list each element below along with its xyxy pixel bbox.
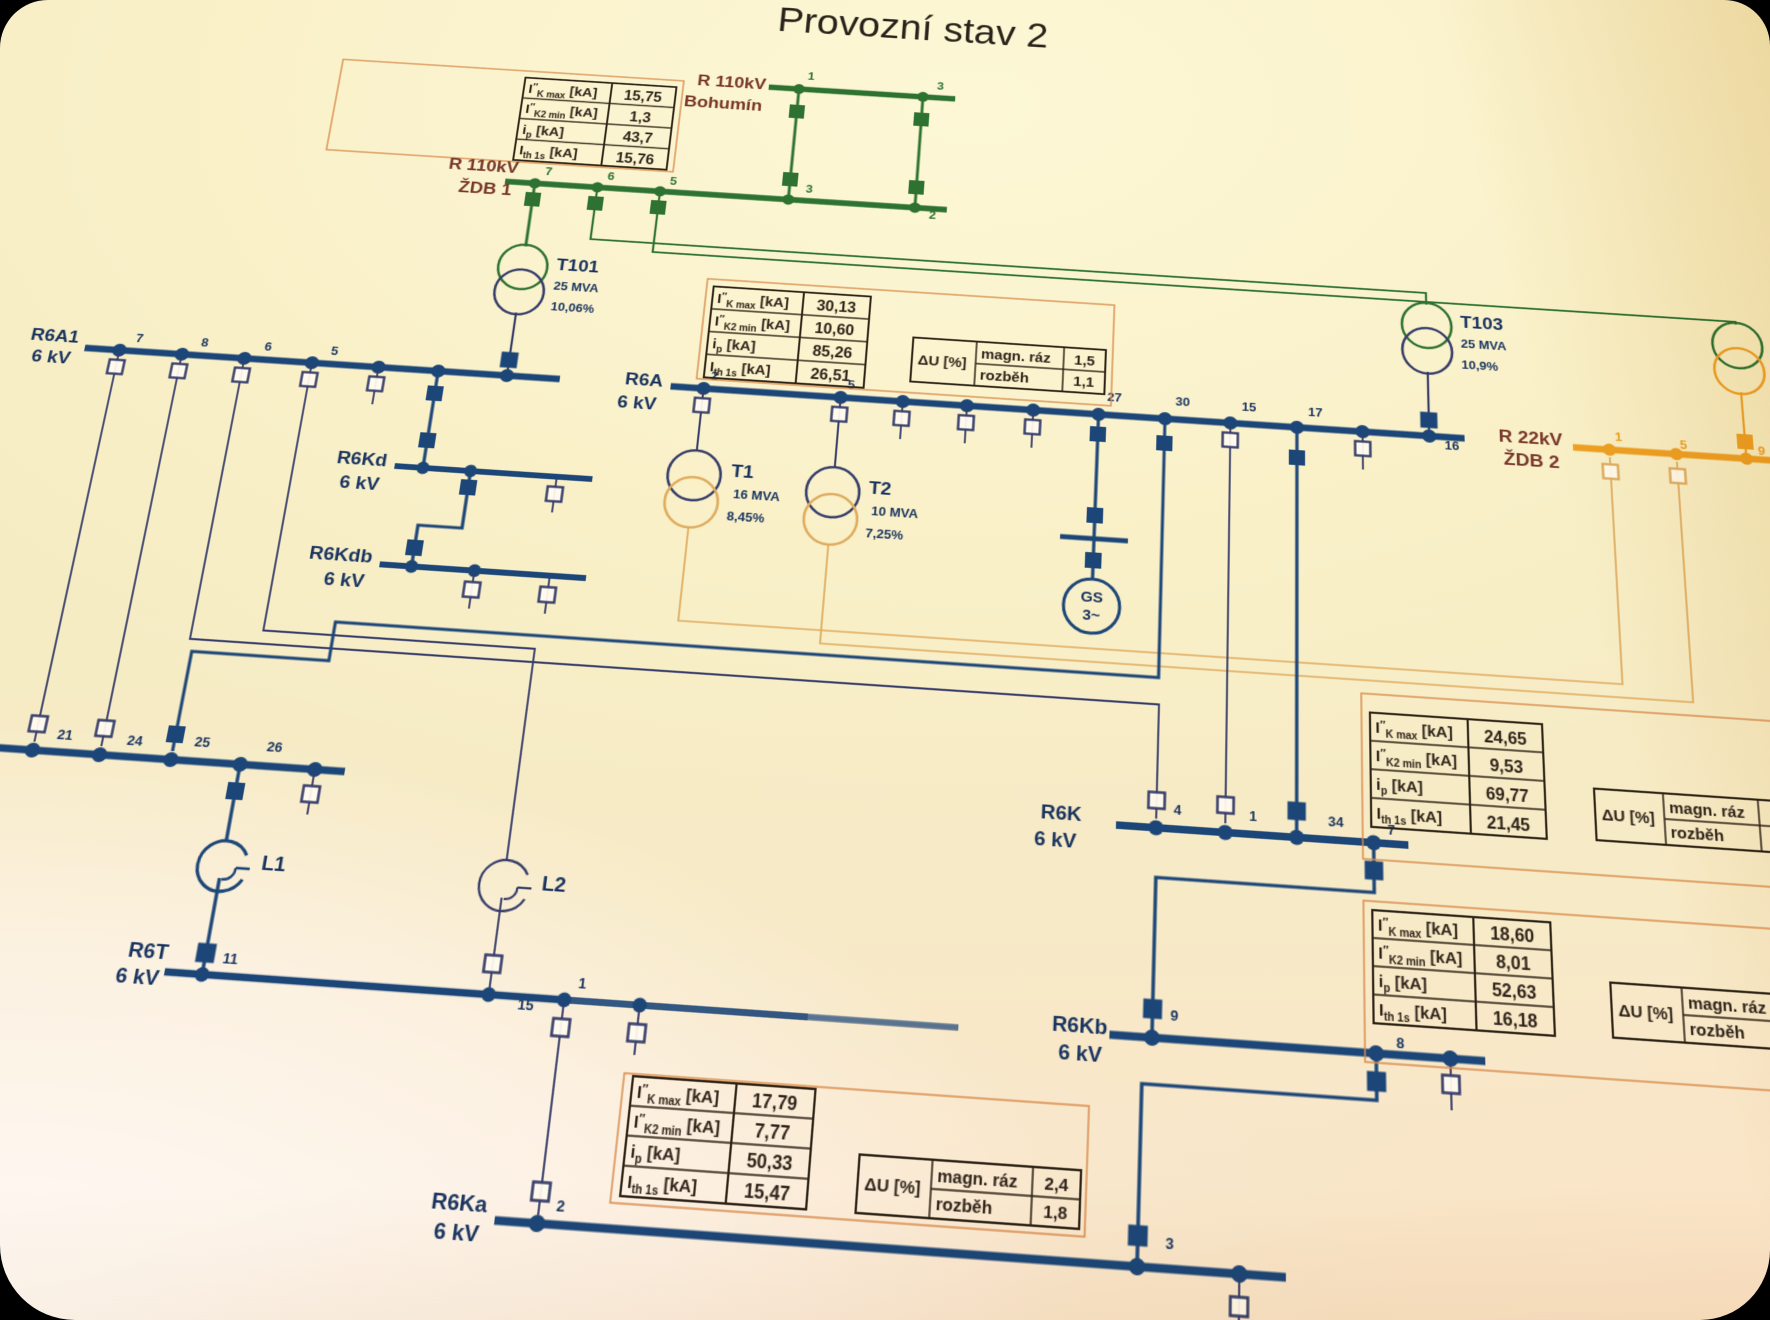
disconnector stub below R6Ka — [1237, 1278, 1240, 1320]
svg-text:ip [kA]: ip [kA] — [1376, 776, 1423, 800]
svg-text:Ith 1s [kA]: Ith 1s [kA] — [626, 1171, 698, 1200]
svg-text:7,25%: 7,25% — [865, 527, 904, 543]
svg-text:15: 15 — [1242, 401, 1257, 415]
svg-text:ΔU [%]: ΔU [%] — [864, 1174, 922, 1199]
wire L2 to disconnector 15 — [489, 898, 502, 995]
disconnector below node6 — [232, 368, 250, 383]
svg-text:10,60: 10,60 — [814, 320, 855, 339]
svg-text:ŽDB 2: ŽDB 2 — [1503, 448, 1560, 472]
svg-text:8,01: 8,01 — [1496, 952, 1531, 975]
svg-text:9: 9 — [1757, 445, 1765, 458]
svg-text:R6Kd: R6Kd — [335, 447, 389, 471]
svg-text:3~: 3~ — [1082, 606, 1101, 624]
breaker below node7 — [524, 192, 541, 207]
svg-text:6 kV: 6 kV — [1058, 1039, 1104, 1067]
node on R6Ka u1248 — [1231, 1265, 1247, 1284]
node on ZDB1 bus u639 — [654, 186, 667, 197]
node on R6A1 u509 — [499, 369, 515, 383]
stub branch on R6T u709 — [634, 1009, 639, 1055]
disconnector stub — [367, 376, 384, 391]
node on R6T u314 — [194, 967, 211, 983]
busbar R6Ka 6kV — [495, 1220, 1286, 1277]
svg-text:T1: T1 — [730, 460, 755, 482]
stub branch on R6A u969 — [965, 409, 967, 444]
svg-text:Provozní stav 2: Provozní stav 2 — [776, 0, 1049, 55]
svg-text:16 MVA: 16 MVA — [732, 488, 780, 504]
transformer T2 primary — [804, 465, 861, 519]
wire R6Kd to R6Kdb — [412, 471, 471, 569]
busbar 6kV left — [0, 744, 345, 771]
svg-text:R6K: R6K — [1040, 800, 1082, 826]
svg-text:R6Ka: R6Ka — [430, 1188, 490, 1218]
node on R6A u706 — [696, 382, 711, 396]
svg-text:25: 25 — [193, 735, 212, 750]
svg-text:magn. ráz: magn. ráz — [1669, 798, 1746, 821]
node on R6T u641 — [556, 992, 572, 1008]
svg-text:1,8: 1,8 — [1043, 1201, 1068, 1224]
svg-text:34: 34 — [1328, 815, 1344, 831]
breaker below node5 — [649, 200, 666, 215]
svg-text:25 MVA: 25 MVA — [1461, 338, 1507, 353]
svg-text:6 kV: 6 kV — [338, 471, 382, 494]
svg-text:26,51: 26,51 — [810, 366, 852, 385]
svg-text:ip [kA]: ip [kA] — [711, 336, 756, 357]
wire Bohumin node3 to ZDB1 — [915, 97, 923, 208]
table short-circuit R6Kb — [1372, 910, 1555, 1036]
wire T102 to 22kV bus — [1741, 392, 1746, 458]
table short-circuit R6A — [704, 286, 871, 387]
svg-text:30,13: 30,13 — [816, 297, 857, 316]
node on R6Ka u1160 — [1129, 1257, 1146, 1276]
svg-text:43,7: 43,7 — [622, 129, 654, 146]
stub branch on R6A u1362 — [1362, 434, 1364, 469]
reactor L1 — [193, 839, 249, 893]
svg-text:GS: GS — [1080, 588, 1103, 607]
breaker 9 above R6Kb — [1143, 998, 1162, 1019]
svg-text:1,5: 1,5 — [1074, 352, 1095, 369]
svg-text:1,1: 1,1 — [1073, 373, 1094, 390]
svg-text:R 110kV: R 110kV — [696, 71, 768, 93]
breaker below junction 26 — [225, 782, 245, 800]
disconnector above junction 21 — [29, 715, 48, 732]
orange frame box 3 — [1361, 693, 1770, 892]
disconnector 4 above R6K bus — [1148, 792, 1165, 809]
svg-text:8: 8 — [1396, 1036, 1405, 1052]
svg-text:ΔU [%]: ΔU [%] — [917, 352, 967, 371]
node on R6A u1362 — [1355, 425, 1369, 439]
node on left bus u314 — [231, 756, 249, 772]
disconnector stub on R6Kb — [1450, 1062, 1451, 1110]
disconnector 1 above R6K bus — [1217, 796, 1233, 813]
isolator crossbar — [1060, 536, 1128, 541]
node on R6A u1297 — [1290, 420, 1304, 434]
svg-text:2: 2 — [555, 1199, 565, 1216]
node on R6A u1428 — [1422, 429, 1436, 443]
svg-text:6 kV: 6 kV — [432, 1217, 482, 1247]
svg-text:6 kV: 6 kV — [616, 391, 659, 414]
node on R6K u1167 — [1148, 820, 1164, 836]
svg-text:T101: T101 — [555, 255, 600, 277]
feeder R6A1 node7 to bus junction 21 — [34, 353, 118, 742]
node on R6A u969 — [960, 399, 975, 413]
svg-text:1: 1 — [1614, 431, 1623, 444]
node on R6Kd u440 — [415, 461, 430, 474]
table short-circuit R6Ka — [620, 1076, 815, 1209]
disconnector — [894, 411, 910, 426]
stub branch on R6A u905 — [900, 404, 903, 439]
feeder R6A node17 to R6K breaker 34 — [1295, 430, 1298, 832]
svg-text:21,45: 21,45 — [1486, 812, 1530, 835]
svg-text:L1: L1 — [260, 851, 288, 876]
svg-text:magn. ráz: magn. ráz — [1687, 993, 1767, 1018]
disconnector below R6T node1 — [551, 1018, 570, 1037]
breaker on wire n1 upper — [789, 104, 805, 118]
disconnector below node7 — [107, 359, 125, 374]
svg-text:8,45%: 8,45% — [726, 510, 765, 526]
wire Bohumin node1 to ZDB1 — [788, 89, 799, 200]
svg-text:rozběh: rozběh — [935, 1193, 993, 1218]
feeder R6A1 to R6Kd bus — [423, 374, 438, 468]
svg-text:6 kV: 6 kV — [113, 963, 162, 991]
breaker 3 above R6Ka — [1128, 1224, 1148, 1246]
node on R6A u1035 — [1026, 403, 1041, 417]
svg-text:10,06%: 10,06% — [550, 301, 595, 316]
node on R6A u1231 — [1223, 416, 1237, 430]
svg-text:9,53: 9,53 — [1489, 755, 1523, 776]
node on R6K u1231 — [1218, 824, 1233, 840]
wire ZDB1 node7 down to T101 — [526, 183, 535, 246]
svg-text:16,18: 16,18 — [1493, 1008, 1539, 1032]
disconnector below node5 — [300, 372, 317, 387]
node on R6K u1297 — [1289, 829, 1304, 845]
breaker lower on R6Kd feeder — [418, 432, 437, 448]
svg-text:ip [kA]: ip [kA] — [1379, 971, 1428, 997]
table short-circuit R110kV — [513, 78, 676, 170]
svg-text:T2: T2 — [868, 477, 892, 499]
node 7 on R6A1 — [111, 343, 128, 357]
node on left bus u384 — [306, 762, 323, 778]
node on 22kV bus u1672 — [1669, 448, 1683, 461]
breaker on wire n3 lower — [908, 180, 924, 195]
node on left bus u182 — [91, 747, 109, 763]
node on left bus u119 — [23, 742, 41, 758]
breaker 16 — [1420, 412, 1437, 429]
busbar R6A 6kV — [671, 386, 1465, 438]
svg-text:6: 6 — [263, 341, 273, 354]
svg-text:27: 27 — [1107, 391, 1122, 405]
disconnector below node8 — [170, 363, 188, 378]
wire L1 to breaker 11 — [202, 878, 219, 974]
busbar R6Kdb 6kV — [380, 564, 586, 578]
breaker T101 low side — [500, 352, 519, 369]
busbar R 110kV Bohumin — [769, 87, 955, 99]
svg-text:6: 6 — [607, 171, 615, 183]
node on R6A1 u380 — [370, 360, 386, 374]
feeder R6A1 node8 to junction 24 — [101, 357, 181, 746]
svg-text:R 22kV: R 22kV — [1498, 426, 1564, 451]
busbar R6T mid part — [563, 1000, 808, 1017]
node on ZDB1 bus u903 — [909, 202, 921, 213]
node on R6Ka u641 — [528, 1214, 546, 1232]
node 6 on R6A1 — [236, 351, 252, 365]
disconnector stub1 on R6Kdb — [469, 574, 474, 609]
breaker on wire n3 upper — [913, 112, 929, 126]
disconnector 15 above R6T bus — [483, 955, 502, 973]
table dU R6Ka — [856, 1155, 1082, 1229]
busbar R6T right part — [808, 1017, 959, 1028]
node on ZDB1 bus u772 — [782, 194, 795, 205]
feeder R6T node1 to R6Ka junction 2 — [538, 1003, 564, 1215]
feeder R6A1 node6 to R6K disconnector 4 — [168, 361, 1166, 818]
generator GS — [1062, 577, 1120, 635]
node on R6K u1368 — [1366, 835, 1381, 851]
svg-text:R6A1: R6A1 — [29, 324, 81, 347]
node on R6Kb u1368 — [1368, 1045, 1384, 1062]
orange frame box 1 — [326, 59, 683, 171]
disconnector — [1355, 441, 1370, 456]
breaker upper on R6Kd feeder — [426, 385, 444, 401]
svg-text:21: 21 — [56, 728, 75, 743]
node on R6Kdb u444 — [404, 560, 419, 574]
wire T1 22kV return — [678, 398, 1622, 684]
node on R6Kb u1434 — [1442, 1050, 1458, 1067]
breaker 11 — [195, 943, 217, 964]
node 5 on R6A1 — [304, 356, 320, 370]
transformer T1 feeder wire — [697, 391, 704, 451]
disconnector 2 above R6Ka — [531, 1182, 550, 1202]
breaker below node17 — [1289, 449, 1305, 465]
svg-text:9: 9 — [1170, 1009, 1178, 1025]
node on ZDB1 bus u509 — [528, 178, 541, 189]
svg-text:69,77: 69,77 — [1486, 784, 1530, 806]
svg-text:5: 5 — [669, 176, 678, 188]
disconnector above T2 — [831, 407, 847, 422]
transformer T1 primary — [665, 449, 723, 502]
busbar R6T 6kV — [165, 972, 563, 1000]
disconnector — [1025, 419, 1041, 434]
svg-text:10 MVA: 10 MVA — [871, 505, 919, 521]
orange frame box 5 — [610, 1073, 1089, 1237]
transformer T2 secondary — [802, 492, 859, 546]
svg-text:17: 17 — [1308, 406, 1323, 420]
svg-text:L2: L2 — [540, 872, 567, 897]
generator GS feeder — [1092, 417, 1098, 580]
svg-text:R6T: R6T — [126, 937, 171, 964]
svg-text:25 MVA: 25 MVA — [553, 280, 600, 295]
svg-text:magn. ráz: magn. ráz — [981, 346, 1052, 366]
svg-text:magn. ráz: magn. ráz — [937, 1165, 1019, 1191]
node on R6A u1100 — [1091, 407, 1106, 421]
transformer T101 primary — [495, 243, 550, 291]
svg-text:1,3: 1,3 — [629, 108, 652, 125]
breaker below node 27 — [1089, 426, 1106, 442]
svg-text:3: 3 — [937, 81, 945, 93]
disconnector below node15 — [1223, 432, 1238, 447]
svg-text:24,65: 24,65 — [1484, 727, 1528, 749]
svg-text:5: 5 — [1679, 439, 1688, 452]
breaker below R6K node7 — [1365, 861, 1384, 881]
transformer T2 feeder wire — [835, 400, 841, 468]
node on R6A1 u440 — [430, 364, 446, 378]
svg-text:T103: T103 — [1460, 312, 1504, 334]
svg-text:R 110kV: R 110kV — [447, 154, 521, 177]
svg-text:52,63: 52,63 — [1492, 980, 1537, 1004]
transformer T103 secondary — [1402, 326, 1453, 375]
feeder junction26 via reactor L1 to R6T — [226, 768, 239, 842]
breaker above R6Kdb — [405, 539, 424, 556]
svg-text:30: 30 — [1175, 396, 1190, 410]
svg-text:6 kV: 6 kV — [1034, 826, 1078, 852]
breaker below R6Kb node8 — [1367, 1071, 1386, 1092]
node 1 on Bohumin bus — [793, 84, 805, 95]
wire R6K node7 to R6Kb node9 — [1152, 831, 1376, 1052]
svg-text:26: 26 — [266, 740, 284, 755]
node on R6A u843 — [833, 390, 848, 404]
orange frame box 4 — [1363, 901, 1770, 1097]
breaker at generator — [1085, 552, 1102, 569]
node on R6A u1166 — [1158, 412, 1172, 426]
table dU R6A — [910, 337, 1106, 394]
wire T103 to R6A bus — [1428, 372, 1429, 436]
breaker above generator — [1086, 507, 1103, 524]
svg-text:15,76: 15,76 — [615, 149, 655, 167]
svg-text:1: 1 — [807, 71, 816, 83]
node on ZDB1 bus u574 — [591, 182, 604, 193]
busbar R6K 6kV — [1116, 825, 1408, 845]
disconnector stub on R6Kd — [552, 480, 556, 513]
svg-text:24: 24 — [126, 734, 145, 749]
table dU R6Kb — [1610, 983, 1770, 1054]
svg-text:7,77: 7,77 — [754, 1120, 791, 1144]
svg-text:3: 3 — [805, 184, 813, 196]
svg-text:17,79: 17,79 — [751, 1090, 798, 1115]
svg-text:16: 16 — [1444, 440, 1459, 454]
breaker below node 30 — [1156, 435, 1173, 451]
node on R6T u709 — [632, 997, 648, 1013]
node 3 on Bohumin bus — [917, 92, 929, 103]
breaker below R6Kd — [459, 479, 478, 495]
disconnector — [958, 415, 974, 430]
wire T2 22kV return — [820, 407, 1693, 703]
svg-text:15,47: 15,47 — [743, 1180, 791, 1205]
svg-text:6 kV: 6 kV — [322, 568, 367, 592]
breaker T102 low side — [1736, 434, 1753, 450]
svg-text:2,4: 2,4 — [1044, 1173, 1070, 1195]
node on 22kV bus u1741 — [1739, 452, 1753, 465]
svg-text:5: 5 — [330, 345, 340, 358]
svg-text:R6Kb: R6Kb — [1051, 1011, 1107, 1040]
node on R6Kdb u505 — [467, 564, 482, 578]
table dU R6K — [1594, 789, 1770, 855]
node on R6A u905 — [895, 395, 910, 409]
svg-text:R6Kdb: R6Kdb — [308, 542, 375, 567]
disconnector stub below bus — [307, 773, 314, 815]
breaker below node6 — [587, 196, 604, 211]
disconnector stub2 on R6Kdb — [545, 579, 550, 614]
busbar R6A1 6kV — [85, 348, 560, 379]
wire R6Kb node8 to R6Ka junction 3 — [1137, 1041, 1379, 1281]
node on 22kV bus u1606 — [1603, 443, 1617, 456]
feeder R6A node15 to R6K disconnector 1 — [1225, 426, 1230, 824]
svg-text:ΔU [%]: ΔU [%] — [1601, 805, 1655, 827]
svg-text:50,33: 50,33 — [746, 1150, 794, 1175]
svg-text:85,26: 85,26 — [812, 343, 853, 362]
svg-text:10,9%: 10,9% — [1461, 359, 1498, 374]
stub branch on R6A u1035 — [1031, 413, 1033, 448]
breaker 34 above R6K bus — [1287, 801, 1305, 821]
busbar R6Kb 6kV — [1109, 1035, 1485, 1061]
stub branch on R6A1 — [372, 370, 378, 404]
feeder R6A node30 to bus 21-26 breaker 25 — [173, 361, 1165, 818]
svg-text:rozběh: rozběh — [1670, 823, 1725, 845]
svg-text:Bohumín: Bohumín — [683, 92, 763, 115]
transformer T1 secondary — [662, 475, 721, 529]
disconnector above T1 — [693, 398, 710, 413]
busbar R 22kV ZDB 2 — [1573, 447, 1770, 462]
svg-text:15,75: 15,75 — [623, 88, 663, 106]
orange frame box 2 — [697, 279, 1115, 406]
node on R6T u573 — [480, 987, 496, 1003]
transformer T103 primary — [1401, 301, 1452, 349]
svg-text:7: 7 — [135, 333, 145, 346]
svg-text:11: 11 — [221, 952, 240, 969]
svg-text:6 kV: 6 kV — [29, 345, 73, 367]
disconnector — [627, 1024, 646, 1043]
disconnector above junction 24 — [95, 720, 114, 737]
svg-text:rozběh: rozběh — [979, 367, 1029, 386]
transformer T102 secondary — [1713, 347, 1767, 396]
reactor L2 — [476, 858, 530, 912]
wire ZDB1 node5 to ZDB2 transformer feeder — [652, 191, 1735, 324]
wire ZDB1 node6 to T103 feeder — [589, 187, 1426, 304]
node on left bus u249 — [162, 752, 180, 768]
table short-circuit R6K — [1370, 713, 1547, 839]
busbar R 110kV ZDB 1 — [505, 181, 947, 209]
transformer T102 primary — [1711, 321, 1764, 370]
node on R6Kd u487 — [463, 464, 478, 477]
breaker 25 above bottom bus — [166, 725, 186, 743]
svg-text:18,60: 18,60 — [1490, 923, 1535, 946]
busbar R6Kd 6kV — [395, 466, 593, 479]
svg-text:ip [kA]: ip [kA] — [521, 122, 565, 141]
svg-text:3: 3 — [1165, 1236, 1174, 1253]
svg-text:1: 1 — [1249, 810, 1258, 825]
svg-text:ip [kA]: ip [kA] — [629, 1141, 681, 1169]
svg-text:ΔU [%]: ΔU [%] — [1618, 1001, 1674, 1024]
svg-text:Ith 1s [kA]: Ith 1s [kA] — [1376, 804, 1442, 830]
svg-text:R6A: R6A — [624, 368, 664, 390]
svg-text:4: 4 — [1173, 803, 1182, 818]
node on R6Kb u1168 — [1144, 1029, 1160, 1046]
svg-text:7: 7 — [544, 166, 553, 178]
svg-text:8: 8 — [200, 337, 210, 350]
svg-text:rozběh: rozběh — [1689, 1019, 1745, 1042]
svg-text:ŽDB 1: ŽDB 1 — [457, 177, 513, 199]
svg-text:1: 1 — [577, 976, 588, 992]
disconnector on 22kV feeder 1 — [1603, 464, 1619, 479]
disconnector on 22kV feeder 5 — [1670, 468, 1686, 483]
wire T101 to R6A1 bus — [507, 313, 516, 376]
feeder R6A1 node5 via reactor L2 to R6T node 15 — [225, 366, 570, 862]
node 8 on R6A1 — [174, 347, 191, 361]
breaker on wire n1 lower — [782, 172, 799, 187]
transformer T101 secondary — [491, 268, 547, 316]
svg-text:Ith 1s [kA]: Ith 1s [kA] — [1379, 1000, 1447, 1028]
